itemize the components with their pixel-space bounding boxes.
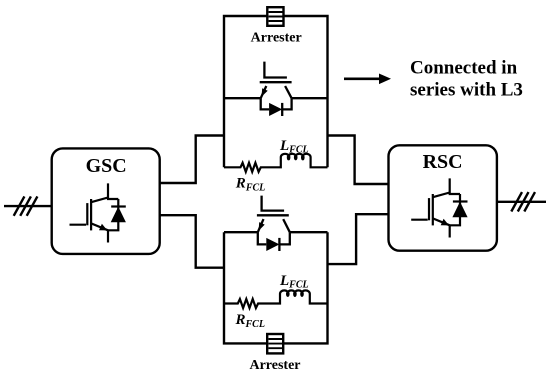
svg-text:Arrester: Arrester xyxy=(251,31,302,46)
svg-text:GSC: GSC xyxy=(86,155,127,177)
svg-text:LFCL: LFCL xyxy=(279,273,309,290)
svg-text:RSC: RSC xyxy=(423,151,463,173)
svg-text:Arrester: Arrester xyxy=(249,358,300,373)
svg-text:Connected in: Connected in xyxy=(410,58,518,79)
svg-text:LFCL: LFCL xyxy=(279,138,309,155)
svg-text:series with L3: series with L3 xyxy=(410,80,523,101)
svg-text:RFCL: RFCL xyxy=(235,312,265,330)
svg-text:RFCL: RFCL xyxy=(235,176,265,194)
